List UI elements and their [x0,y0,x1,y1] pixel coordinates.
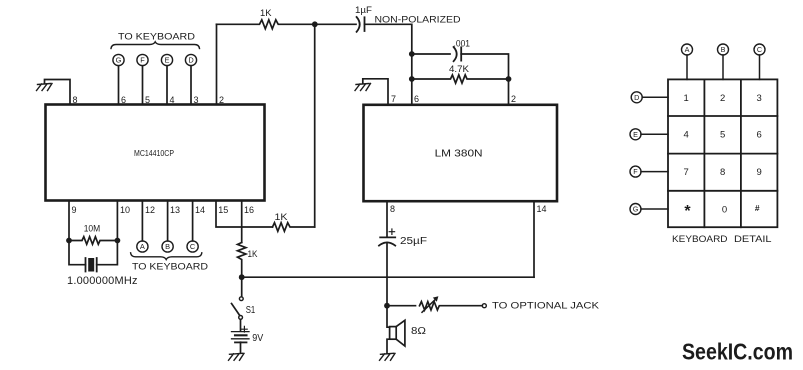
wire pin14 riser [533,201,535,277]
svg-text:25µF: 25µF [400,236,427,247]
wire pin8 to ground [45,80,71,105]
wire battery to ground [240,342,242,353]
switch S1 lower contact [239,316,243,320]
svg-text:B: B [721,45,726,54]
wire pin3 stub [190,66,192,105]
keypad circle C [754,44,765,55]
wire long net to pin14 [242,276,534,278]
wire pin7 to ground [363,79,388,105]
svg-text:A: A [140,242,145,251]
wire pin15 to R4 [216,201,273,228]
node E [161,54,172,65]
svg-text:2: 2 [511,94,516,104]
wire pin14dtmf stub [192,201,194,241]
node D [185,54,196,65]
svg-text:C: C [190,242,196,251]
svg-text:10M: 10M [84,223,101,233]
svg-text:14: 14 [537,204,547,214]
wire pin9 stub [68,201,70,241]
svg-text:TO KEYBOARD: TO KEYBOARD [118,30,195,41]
ground (pin 8) [37,84,53,91]
wire pin13 stub [167,201,169,241]
capacitor C3 25uF flat plate [380,236,395,238]
speaker LS1 horn [396,320,405,346]
svg-text:E: E [633,130,638,139]
wire pin2 riser [216,24,218,104]
svg-text:10: 10 [120,205,130,215]
keypad grid verticals [704,79,741,227]
battery BT1 plus sign [242,326,248,332]
wire pin12 stub [141,201,143,241]
wire feedback riser x=314.7 [314,24,316,227]
wire pin6 stub [118,66,120,105]
wire pin10 stub [116,201,118,241]
capacitor C2 .001 curved plate [454,47,457,61]
svg-text:3: 3 [194,95,199,105]
node open terminal jack [482,304,486,308]
battery BT1 plates [232,331,250,333]
capacitor C2 flat plate [460,47,462,60]
node junction R5 right [506,76,512,82]
speaker LS1 body [390,327,397,340]
wire F to grid [641,171,668,173]
svg-text:TO OPTIONAL JACK: TO OPTIONAL JACK [492,300,599,310]
resistor R2 1K vertical zigzag [238,243,246,278]
wire speaker top lead [387,306,390,328]
svg-text:S1: S1 [246,305,256,316]
wire D to grid [642,96,668,98]
svg-text:1.000000MHz: 1.000000MHz [67,275,138,287]
svg-text:12: 12 [145,205,155,215]
svg-text:5: 5 [145,95,150,105]
svg-text:F: F [633,167,638,176]
svg-text:B: B [165,242,170,251]
svg-text:16: 16 [244,205,254,215]
wire C2 to pin2 riser [461,54,508,105]
wire junction to C2 [412,53,450,55]
svg-text:1K: 1K [260,8,272,18]
rheostat R6 zigzag [420,302,483,310]
svg-text:2: 2 [219,95,224,105]
ground (speaker) [380,353,396,360]
svg-text:3: 3 [757,93,762,104]
svg-text:8: 8 [720,167,725,178]
wire junction to rheostat [387,305,416,307]
svg-text:1K: 1K [275,212,288,222]
IC U2 LM380N body [364,105,558,201]
wire pin5 stub [142,66,144,105]
svg-text:6: 6 [414,94,419,104]
wire C3 to speaker junction [386,244,388,306]
ground (battery) [229,353,245,360]
svg-text:13: 13 [170,205,180,215]
node junction C2 tap [409,51,415,57]
wire speaker bottom lead [387,339,390,353]
svg-text:1K: 1K [248,249,258,259]
svg-text:D: D [634,93,639,102]
svg-text:.001: .001 [454,38,471,48]
capacitor C3 plus sign [389,229,394,234]
wire E to grid [641,133,668,135]
svg-text:E: E [165,56,170,65]
svg-text:LM 380N: LM 380N [435,149,483,160]
node junction R5 left [409,76,415,82]
wire G to grid [641,208,668,210]
keypad circle E [630,129,641,140]
capacitor C3 curved plate [379,242,395,245]
svg-text:9: 9 [72,205,77,215]
crystal Y1 body [88,258,94,272]
svg-text:*: * [684,203,691,220]
keypad circle A [682,44,693,55]
svg-text:C: C [757,45,762,54]
switch S1 blade [232,304,240,316]
node C circle [187,241,198,252]
keypad circle G [630,204,641,215]
svg-text:KEYBOARD: KEYBOARD [672,233,728,244]
svg-text:1: 1 [684,93,689,104]
node xtal right [115,238,121,244]
svg-text:MC14410CP: MC14410CP [134,149,174,158]
capacitor C1 1uF curved plate [357,17,360,32]
svg-text:7: 7 [391,94,396,104]
svg-text:SeekIC.com: SeekIC.com [682,339,793,365]
svg-text:G: G [116,56,122,65]
crystal Y1 plates [86,258,97,272]
node junction pin16/R2 [239,274,245,280]
svg-text:D: D [188,56,193,65]
svg-text:5: 5 [720,130,725,141]
rheostat R6 arrow [422,299,436,313]
svg-text:#: # [755,203,760,213]
keypad circle F [630,166,641,177]
capacitor C1 flat plate [364,17,366,31]
svg-text:7: 7 [684,167,689,178]
node junction R1/C1/feedback [312,21,318,27]
svg-text:8: 8 [73,95,78,105]
wire A to grid [686,55,688,79]
svg-text:8: 8 [390,204,395,214]
resistor R4 1K zigzag (mid) [273,223,315,232]
svg-text:6: 6 [121,95,126,105]
svg-text:14: 14 [195,205,205,215]
brace top keyboard [111,42,200,49]
svg-text:0: 0 [722,204,727,215]
node junction speaker/jack [384,303,390,309]
node A circle [137,241,148,252]
svg-text:9V: 9V [252,333,263,344]
wire junction to C1 [315,23,356,25]
resistor R3 10M [69,237,117,245]
svg-text:1µF: 1µF [355,5,373,15]
wire pin16 stub [241,201,243,243]
svg-text:2: 2 [720,93,725,104]
crystal Y1 leads [69,241,117,265]
svg-text:4: 4 [170,95,175,105]
node F [137,54,148,65]
svg-text:15: 15 [218,205,228,215]
wire pin4 stub [166,66,168,105]
svg-text:G: G [633,205,639,214]
svg-text:4.7K: 4.7K [449,64,470,75]
keypad circle D [631,92,642,103]
svg-text:DETAIL: DETAIL [734,233,772,244]
svg-text:TO KEYBOARD: TO KEYBOARD [132,260,208,271]
svg-text:F: F [140,56,145,65]
IC U1 MC14410CP body [46,105,265,201]
svg-text:A: A [685,45,690,54]
keypad grid frame [668,79,777,227]
keypad grid horizontals [668,116,777,191]
node xtal left [66,238,72,244]
ground (pin 7) [355,84,371,91]
wire pin8 stub down [386,201,388,237]
svg-text:6: 6 [757,130,762,141]
svg-text:4: 4 [684,130,689,141]
keypad circle B [718,44,729,55]
resistor R1 1K lead+zigzag (top) [217,20,315,29]
svg-text:9: 9 [757,167,762,178]
wire B to grid [722,55,724,79]
wire C to grid [759,55,761,79]
svg-text:8Ω: 8Ω [411,325,426,337]
node G (keyboard line G) [113,54,124,65]
resistor R5 4.7K [412,75,509,83]
node B circle [162,241,173,252]
switch S1 upper contact [241,277,243,297]
wire C1 to pin6 corner [365,24,412,104]
svg-text:NON-POLARIZED: NON-POLARIZED [375,14,461,24]
brace bottom keyboard [131,253,202,260]
wire S1 to battery [240,319,242,330]
